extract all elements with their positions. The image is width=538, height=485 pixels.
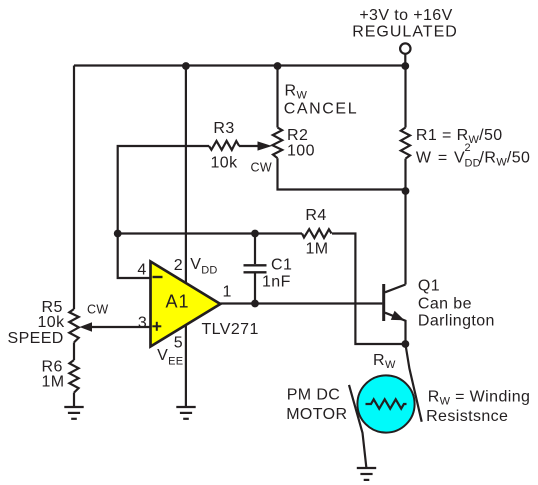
label pin 2 (174, 257, 183, 274)
ground motor (357, 468, 376, 480)
wire R3 wiper arrow to R2 (239, 141, 272, 150)
label pin 4 (137, 262, 146, 279)
svg-text:REGULATED: REGULATED (352, 23, 458, 40)
svg-text:R1 = RW/50: R1 = RW/50 (416, 127, 503, 146)
wire R2 bottom lead (278, 158, 406, 189)
label pin 5 (174, 334, 183, 351)
label pin 3 (138, 315, 147, 332)
label A1 (165, 292, 189, 312)
svg-text:R3: R3 (213, 120, 234, 137)
motor PM DC circle (357, 375, 414, 432)
svg-text:W = V: W = V (416, 150, 466, 167)
potentiometer R2 100 (272, 128, 282, 159)
wire pin4 stub (118, 234, 151, 279)
label R4 1M (305, 207, 328, 257)
svg-text:MOTOR: MOTOR (286, 406, 347, 423)
label pin 1 (223, 284, 232, 301)
ground left (64, 407, 83, 419)
svg-text:Can be: Can be (418, 296, 472, 313)
label VEE (157, 347, 183, 368)
svg-text:3: 3 (138, 315, 147, 332)
op-amp plus sign pin3 (152, 322, 161, 331)
svg-text:CW: CW (87, 302, 108, 316)
svg-text:2: 2 (465, 142, 471, 154)
svg-text:100: 100 (287, 143, 315, 160)
label RW above motor (373, 352, 396, 371)
label C1 1nF (262, 256, 292, 290)
svg-text:4: 4 (137, 262, 146, 279)
transistor Q1 base bar (382, 284, 385, 321)
wire VEE to ground (185, 325, 187, 407)
op-amp A1 triangle (151, 262, 221, 347)
svg-text:+3V to +16V: +3V to +16V (359, 7, 452, 24)
svg-text:5: 5 (174, 334, 183, 351)
transistor Q1 collector (385, 285, 406, 293)
svg-text:VDD: VDD (190, 256, 217, 277)
wire R2 top lead (276, 66, 278, 128)
transistor Q1 emitter with arrow (385, 311, 406, 344)
op-amp minus sign pin4 (153, 276, 163, 278)
label R1 = RW/50 (416, 127, 503, 146)
node emitter dot (402, 340, 410, 348)
motor winding resistor RW (366, 399, 407, 408)
wire op-amp output (220, 302, 382, 304)
ground op-amp (176, 407, 195, 419)
node inverting dot (114, 230, 122, 238)
wire VDD rail (185, 66, 187, 284)
node supply dot at terminal (401, 62, 409, 70)
node VDD rail dot (182, 62, 190, 70)
svg-text:RW: RW (373, 352, 396, 371)
label R3 10k (211, 120, 239, 171)
svg-text:R4: R4 (305, 207, 326, 224)
wire emitter to motor brush right (405, 344, 421, 422)
wire R1 bottom / Q1 collector rail (404, 159, 406, 285)
wire pin3 with wiper arrow to R5 (80, 322, 151, 331)
svg-text:1M: 1M (42, 374, 65, 391)
resistor R6 1M (69, 360, 78, 393)
label RW CANCEL (284, 83, 359, 118)
svg-text:Darlington: Darlington (418, 313, 495, 330)
node R2 top dot (274, 62, 282, 70)
svg-text:SPEED: SPEED (8, 330, 64, 347)
wire R1 top lead (404, 66, 406, 128)
svg-text:10k: 10k (38, 314, 66, 331)
node output dot at C1 (251, 300, 259, 308)
wire top supply rail (74, 64, 405, 66)
svg-text:R2: R2 (287, 127, 308, 144)
label CW R5 (87, 302, 108, 316)
svg-text:TLV271: TLV271 (202, 321, 259, 338)
label R5 10k SPEED (8, 299, 66, 347)
wire motor brush left to ground (349, 385, 366, 468)
svg-text:C1: C1 (271, 256, 292, 273)
label W = VDD2/RW/50 (416, 142, 530, 170)
label R6 1M (42, 359, 65, 391)
node R1 bottom dot (402, 187, 410, 195)
wire R5 to R6 (73, 342, 75, 360)
resistor R1 (401, 128, 410, 159)
svg-text:Q1: Q1 (418, 277, 440, 294)
resistor R3 10k (209, 141, 239, 150)
svg-text:PM DC: PM DC (287, 387, 341, 404)
wire R4 right to emitter node (332, 234, 405, 345)
potentiometer R5 10k SPEED (69, 309, 79, 342)
label +3V to +16V REGULATED (352, 7, 458, 40)
svg-text:/RW/50: /RW/50 (480, 150, 531, 169)
svg-text:1nF: 1nF (262, 274, 291, 291)
svg-text:A1: A1 (165, 292, 189, 312)
power terminal +3V to +16V (400, 43, 410, 65)
label RW = Winding Resistsnce (426, 389, 530, 426)
svg-text:1: 1 (223, 284, 232, 301)
wire R3 left lead and down to inverting node (118, 146, 209, 234)
svg-text:CANCEL: CANCEL (284, 101, 359, 118)
label R2 100 (287, 127, 315, 160)
capacitor C1 1nF (244, 234, 267, 304)
label PM DC MOTOR (286, 387, 347, 423)
node C1 top dot (251, 230, 259, 238)
label VDD (190, 256, 217, 277)
svg-text:10k: 10k (211, 154, 239, 171)
wire inverting node horizontal (118, 232, 302, 234)
resistor R4 1M (302, 229, 332, 238)
label Q1 Can be Darlington (418, 277, 495, 329)
svg-text:CW: CW (251, 160, 272, 174)
svg-text:RW: RW (285, 83, 308, 102)
svg-text:RW = Winding: RW = Winding (428, 389, 531, 408)
wire left rail (73, 66, 75, 310)
wire R6 to ground (73, 393, 75, 407)
svg-text:DD: DD (465, 158, 481, 170)
svg-text:1M: 1M (305, 240, 328, 257)
label TLV271 (202, 321, 259, 338)
label CW R2 (251, 160, 272, 174)
svg-text:2: 2 (174, 257, 183, 274)
svg-text:Resistsnce: Resistsnce (426, 408, 508, 425)
